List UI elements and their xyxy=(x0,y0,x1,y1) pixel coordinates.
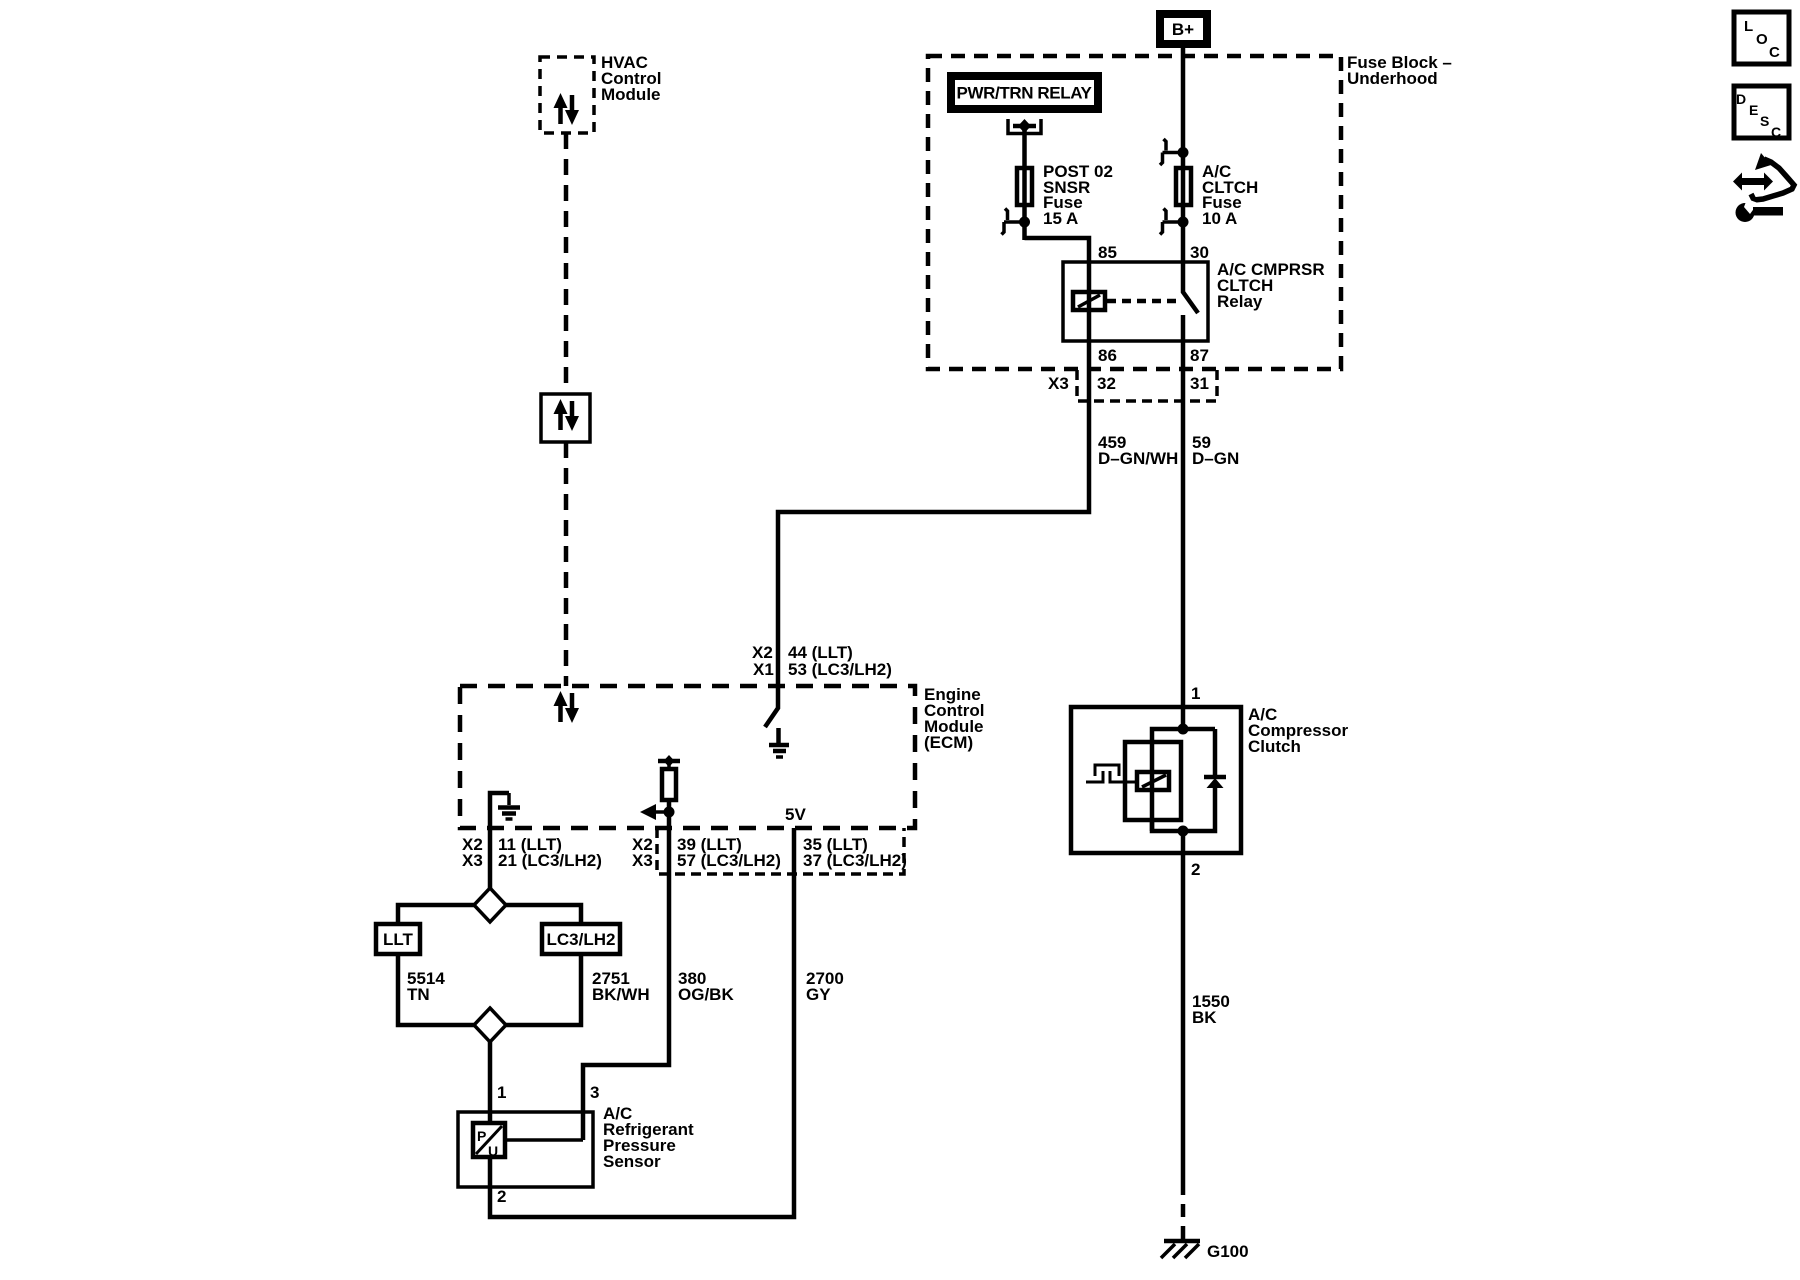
dashed wire to ground xyxy=(1181,1182,1186,1245)
pin labels 35 / 37 xyxy=(803,835,907,870)
ECM connector dashed box (39/57, 35/37) xyxy=(657,828,904,874)
pin labels X2 39 / X3 57 xyxy=(632,835,781,870)
coil left branch wire xyxy=(1150,742,1155,831)
svg-text:BK/WH: BK/WH xyxy=(592,985,650,1004)
LOC icon xyxy=(1734,12,1789,64)
svg-text:BK: BK xyxy=(1192,1008,1217,1027)
LC3/LH2 lower branch wire xyxy=(505,954,581,1025)
wire 59 D-GN: relay 87 to clutch xyxy=(1181,341,1186,707)
pressure transducer P/U symbol xyxy=(473,1123,505,1159)
ECM lower pin labels: X2 11 / X3 21 xyxy=(462,835,602,870)
ECM 5V pull-up supply xyxy=(658,755,680,769)
HVAC control module dashed box xyxy=(540,57,594,133)
engine control module dashed box xyxy=(460,686,915,828)
ECM label xyxy=(924,685,984,752)
coil element xyxy=(1137,772,1169,790)
LLT lower branch wire xyxy=(398,954,475,1025)
LC3/LH2 variant box xyxy=(542,924,620,954)
svg-text:10 A: 10 A xyxy=(1202,209,1237,228)
wire 1550 BK xyxy=(1181,853,1186,1182)
svg-text:85: 85 xyxy=(1098,243,1117,262)
svg-text:Underhood: Underhood xyxy=(1347,69,1438,88)
wire 5514 TN upper segment xyxy=(488,828,493,888)
svg-text:32: 32 xyxy=(1097,374,1116,393)
relay coil-switch dashed link xyxy=(1107,299,1180,304)
svg-text:PWR/TRN RELAY: PWR/TRN RELAY xyxy=(957,84,1093,103)
wire 459 D-GN/WH: relay 86 to ECM xyxy=(778,341,1089,686)
svg-text:B+: B+ xyxy=(1172,20,1194,39)
inner loop bottom wire xyxy=(1152,786,1215,831)
relay coil xyxy=(1073,292,1105,310)
svg-text:D: D xyxy=(1736,91,1746,107)
svg-text:15 A: 15 A xyxy=(1043,209,1078,228)
related-info navigation icon xyxy=(1733,153,1794,222)
wire pin85-coil-pin86 through relay xyxy=(1087,262,1092,341)
svg-text:X3: X3 xyxy=(462,851,483,870)
inline connector below POST O2 fuse xyxy=(1002,209,1031,235)
svg-text:C: C xyxy=(1771,124,1781,140)
label: Fuse Block - Underhood xyxy=(1347,53,1452,88)
fuse POST O2 SNSR 15A xyxy=(1017,168,1032,205)
node: bottom junction xyxy=(1178,826,1189,837)
svg-text:Sensor: Sensor xyxy=(603,1152,661,1171)
connector above A/C CLTCH fuse xyxy=(1160,139,1189,165)
svg-text:Relay: Relay xyxy=(1217,292,1263,311)
wire label 2751 BK/WH xyxy=(592,969,650,1004)
svg-text:E: E xyxy=(1749,102,1758,118)
fuse block underhood dashed box xyxy=(928,56,1341,369)
relay name label xyxy=(1217,260,1325,311)
svg-text:1: 1 xyxy=(1191,684,1200,703)
ECM ground for sensor low reference xyxy=(490,793,520,828)
svg-text:D–GN: D–GN xyxy=(1192,449,1239,468)
ECM pin labels X2 44 / X1 53 xyxy=(752,643,892,679)
svg-text:L: L xyxy=(1744,18,1753,35)
splice diamond lower xyxy=(474,1008,506,1042)
signal direction arrow xyxy=(640,804,675,820)
svg-text:87: 87 xyxy=(1190,346,1209,365)
svg-text:S: S xyxy=(1760,113,1769,129)
svg-text:O: O xyxy=(1756,31,1768,48)
DESC icon xyxy=(1734,86,1789,140)
wire through POST O2 fuse xyxy=(1022,168,1027,240)
diode (right branch) xyxy=(1213,729,1218,777)
A/C CMPRSR CLTCH relay box xyxy=(1063,262,1208,341)
ECM internal switch (driver) xyxy=(765,686,778,727)
wire from PWR/TRN relay to fuse xyxy=(1022,130,1027,168)
svg-text:TN: TN xyxy=(407,985,430,1004)
svg-text:D–GN/WH: D–GN/WH xyxy=(1098,449,1178,468)
svg-text:Clutch: Clutch xyxy=(1248,737,1301,756)
svg-text:2: 2 xyxy=(497,1187,506,1206)
wire fuse to relay pin 85 xyxy=(1025,238,1090,262)
svg-text:31: 31 xyxy=(1190,374,1209,393)
ground G100 xyxy=(1161,1241,1249,1261)
svg-text:30: 30 xyxy=(1190,243,1209,262)
relay coil diagonal xyxy=(1078,295,1100,307)
svg-text:3: 3 xyxy=(590,1083,599,1102)
inner loop top wire xyxy=(1152,729,1215,742)
wire label 5514 TN xyxy=(407,969,445,1004)
PWR/TRN RELAY label box xyxy=(951,76,1098,109)
serial data link box xyxy=(541,394,590,442)
svg-text:1: 1 xyxy=(497,1083,506,1102)
splice diamond upper xyxy=(474,888,506,922)
LLT variant box xyxy=(376,924,420,954)
svg-text:X3: X3 xyxy=(1048,374,1069,393)
wire out of box xyxy=(1181,831,1186,853)
ECM internal ground xyxy=(769,728,789,757)
data link arrows xyxy=(554,399,580,431)
svg-text:OG/BK: OG/BK xyxy=(678,985,734,1004)
HVAC serial data arrows xyxy=(554,93,580,125)
clutch field coil housing xyxy=(1125,742,1181,820)
svg-text:2: 2 xyxy=(1191,860,1200,879)
branch wire to LC3/LH2 xyxy=(505,905,581,924)
wire label 459 D-GN/WH xyxy=(1098,433,1178,468)
A/C compressor clutch box xyxy=(1071,707,1241,853)
svg-text:37 (LC3/LH2): 37 (LC3/LH2) xyxy=(803,851,907,870)
wire label 380 OG/BK xyxy=(678,969,734,1004)
svg-text:U: U xyxy=(488,1143,498,1159)
svg-text:86: 86 xyxy=(1098,346,1117,365)
HVAC label xyxy=(601,53,661,104)
svg-text:GY: GY xyxy=(806,985,831,1004)
ECM serial data arrows xyxy=(554,691,580,723)
wire into box xyxy=(1181,707,1186,729)
wire 360 OG/BK: ECM to sensor pin 3 xyxy=(583,828,669,1140)
svg-text:57 (LC3/LH2): 57 (LC3/LH2) xyxy=(677,851,781,870)
clutch inner circuit xyxy=(1086,707,1226,853)
sensor internal wires xyxy=(488,1112,493,1187)
svg-text:LC3/LH2: LC3/LH2 xyxy=(547,930,616,949)
svg-text:5V: 5V xyxy=(785,805,806,824)
branch wire to LLT xyxy=(398,905,475,924)
connector below A/C CLTCH fuse xyxy=(1160,209,1189,235)
svg-text:21 (LC3/LH2): 21 (LC3/LH2) xyxy=(498,851,602,870)
mechanical clutch linkage symbol xyxy=(1086,771,1103,782)
battery feed B+ terminal xyxy=(1160,14,1207,44)
pull-up resistor xyxy=(662,769,676,800)
node: top junction xyxy=(1178,724,1189,735)
svg-text:C: C xyxy=(1769,44,1780,61)
fuse A/C CLTCH 10A xyxy=(1176,168,1191,205)
svg-text:X3: X3 xyxy=(632,851,653,870)
wire diamond to sensor pin 1 xyxy=(488,1042,493,1112)
svg-text:X1: X1 xyxy=(753,660,774,679)
wire 2700 GY: ECM 5V to sensor pin 2 xyxy=(490,828,794,1217)
svg-text:G100: G100 xyxy=(1207,1242,1249,1261)
serial data dashed wire (upper) xyxy=(564,133,569,394)
svg-text:LLT: LLT xyxy=(383,930,414,949)
sensor label xyxy=(603,1104,694,1171)
svg-text:Module: Module xyxy=(601,85,661,104)
clutch label xyxy=(1248,705,1349,756)
wire resistor to pin xyxy=(667,800,672,828)
wire B+ down to relay pin 30 xyxy=(1181,48,1186,262)
svg-text:(ECM): (ECM) xyxy=(924,733,973,752)
svg-text:P: P xyxy=(477,1128,486,1144)
svg-text:53 (LC3/LH2): 53 (LC3/LH2) xyxy=(788,660,892,679)
wire label 59 D-GN xyxy=(1192,433,1239,468)
relay output terminal symbol xyxy=(1008,119,1041,134)
wire label 2700 GY xyxy=(806,969,844,1004)
serial data dashed wire (lower) xyxy=(564,442,569,686)
connector X3 dashed box xyxy=(1077,370,1217,401)
relay switch (pin 30 to 87, open) xyxy=(1183,262,1198,313)
A/C refrigerant pressure sensor box xyxy=(458,1112,593,1187)
